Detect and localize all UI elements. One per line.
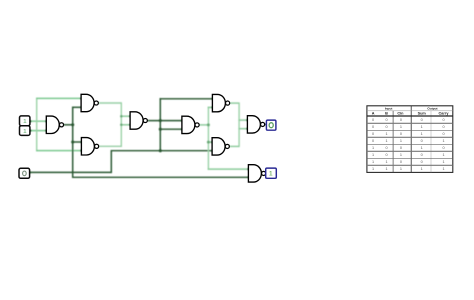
table divider B/Cin [392,111,394,173]
table divider input/output [410,106,412,173]
svg-text:0: 0 [385,125,387,129]
svg-text:0: 0 [372,125,374,129]
svg-text:1: 1 [372,160,374,164]
nand gate G5 [182,116,199,133]
port blob pin Cin [29,171,32,174]
svg-text:0: 0 [385,146,387,150]
svg-text:0: 0 [372,118,374,122]
wire Cin vertical riser [110,150,112,173]
port blob G7 input 2 [211,149,214,152]
svg-text:1: 1 [442,153,444,157]
wire A pin to G1 top input [30,120,46,122]
svg-text:1: 1 [400,139,402,143]
wire G1 output [64,124,73,126]
svg-text:0: 0 [400,118,402,122]
svg-text:B: B [385,111,388,115]
svg-text:0: 0 [421,118,423,122]
svg-text:0: 0 [442,125,444,129]
wire Cin to G7 bottom input [111,150,212,152]
port blob G1 input 2 [45,129,48,132]
wire N1 long bottom line to G9 [73,176,249,178]
port blob G5 input 1 [181,119,184,122]
port blob G8 input 1 [246,119,249,122]
svg-text:1: 1 [269,171,273,178]
wire to G8 top input [238,119,247,121]
wire to G4 top input [121,115,131,117]
nand gate G4 [130,112,147,129]
port blob G9 input 2 [247,176,250,179]
port blob G3 input 2 [80,149,83,152]
nand gate G8 [247,116,264,133]
table row lines [367,122,453,124]
svg-text:0: 0 [372,139,374,143]
svg-text:1: 1 [400,125,402,129]
port blob G6 input 2 [211,106,214,109]
wire to G6 top input [160,98,213,100]
svg-text:1: 1 [421,146,423,150]
wire G5 output vertical [207,107,209,170]
port blob G3 input 1 [80,141,83,144]
nand gate G1 [46,116,63,133]
nand gate G3 [81,138,98,155]
svg-text:1: 1 [421,167,423,171]
svg-text:1: 1 [442,160,444,164]
wire Cin pin horizontal [30,171,112,173]
svg-text:1: 1 [421,125,423,129]
wire G2/G3 outputs vertical [120,102,122,147]
port blob G4 input 2 [129,124,132,127]
junction dot G5 out on vertical [207,123,210,126]
svg-text:A: A [372,111,375,115]
wire branch to G2 top input [36,97,81,99]
wire to G4 bottom input [121,124,131,126]
svg-text:1: 1 [442,139,444,143]
svg-text:Input: Input [385,106,393,110]
wire N1 to G2 bottom input [72,106,81,108]
port blob G5 input 2 [181,128,184,131]
junction dot G4 out on mid vertical [159,119,162,122]
svg-text:0: 0 [400,146,402,150]
wire G6/G7 outputs vertical [238,102,240,147]
junction dot G1 out [71,123,74,126]
output pin Sum [266,120,276,130]
wire to G8 bottom input [238,128,247,130]
wire to G6 bottom input [208,106,213,108]
truth table [367,106,453,173]
junction dot G3 top stub [71,140,74,143]
input pin B [20,126,30,136]
wire N1 to G3 top input [72,141,81,143]
svg-text:0: 0 [421,153,423,157]
svg-text:0: 0 [400,160,402,164]
wire to G9 top input [208,168,249,170]
svg-text:0: 0 [385,118,387,122]
port blob G6 input 1 [211,98,214,101]
table sub-header line [367,110,453,112]
junction dot G7 top stub [207,141,210,144]
svg-text:1: 1 [385,139,387,143]
svg-text:0: 0 [421,160,423,164]
wire to G5 bottom input [160,128,182,130]
port blob G2 input 2 [80,106,83,109]
port blob G9 input 1 [247,168,250,171]
svg-text:1: 1 [372,167,374,171]
wire G5 output [199,124,208,126]
svg-text:0: 0 [421,139,423,143]
svg-text:1: 1 [385,160,387,164]
nand gate G7 [212,138,229,155]
nand gate G2 [81,94,98,111]
wire to G7 top input [208,141,212,143]
svg-text:0: 0 [385,153,387,157]
port blob G7 input 1 [211,141,214,144]
wire G4 output to G5 top input [147,120,182,122]
svg-text:0: 0 [400,132,402,136]
table frame [367,106,453,173]
wire G2 output [98,102,121,104]
svg-text:1: 1 [372,153,374,157]
port blob G8 input 2 [246,127,249,130]
svg-text:0: 0 [372,132,374,136]
svg-text:1: 1 [400,167,402,171]
svg-text:Sum: Sum [418,111,427,115]
input pin Cin [19,168,30,178]
wire G7 output [229,145,239,147]
junction dot mid vertical on Cin line [159,149,162,152]
wire B pin to G1 bottom input [30,130,46,132]
junction dot G4 bottom stub [120,124,123,127]
wire A/B branch vertical [36,98,38,151]
svg-text:1: 1 [385,132,387,136]
svg-text:0: 0 [442,132,444,136]
port blob G2 input 1 [80,97,83,100]
table data rows [372,118,445,171]
svg-text:Output: Output [427,106,437,110]
svg-text:0: 0 [442,146,444,150]
wire G6 output [230,102,240,104]
wire G3 output [99,145,122,147]
table header separator [367,115,453,117]
input pin A [20,116,30,126]
svg-text:Cin: Cin [397,111,404,115]
svg-text:1: 1 [400,153,402,157]
port blob G1 input 1 [45,120,48,123]
table divider Sum/Carry [430,111,432,173]
wire G8 output to Sum pin [265,123,267,125]
junction dot G4 top stub [120,115,123,118]
port blob G4 input 1 [129,115,132,118]
port blob pin B [29,129,32,132]
nand gate G6 [212,94,229,111]
svg-text:1: 1 [372,146,374,150]
svg-text:1: 1 [385,167,387,171]
wire N1 vertical [72,107,74,178]
wire mid vertical [159,98,161,151]
svg-text:1: 1 [442,167,444,171]
junction dot G5 bottom stub [159,128,162,131]
port blob pin A [29,120,32,123]
svg-text:Carry: Carry [439,111,450,115]
svg-text:0: 0 [442,118,444,122]
nand gate G9 [248,165,265,182]
wire branch to G3 bottom input [36,150,81,152]
svg-text:1: 1 [421,132,423,136]
output pin Carry [266,168,277,178]
